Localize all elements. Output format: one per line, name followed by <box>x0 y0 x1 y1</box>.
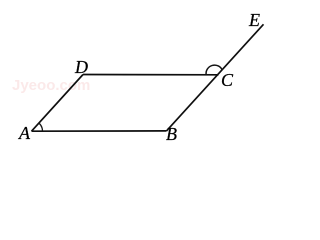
watermark Jyeoo.com <box>12 77 90 94</box>
wire side AD <box>32 75 84 132</box>
node A <box>19 124 30 142</box>
node C <box>221 71 233 89</box>
node E <box>249 11 260 29</box>
wire line B to E <box>167 24 264 131</box>
node B <box>166 125 177 143</box>
wire side AB <box>32 130 167 132</box>
angle arc at A <box>39 123 43 131</box>
wire side DC <box>83 74 219 76</box>
angle arc at C <box>206 65 222 74</box>
node D <box>75 58 88 76</box>
